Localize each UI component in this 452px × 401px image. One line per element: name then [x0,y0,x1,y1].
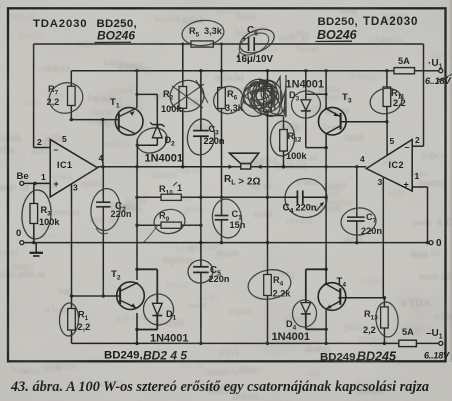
resistor R13 [381,307,389,328]
node 0-bus x221 [220,241,223,244]
wire D3 bottom leg [305,111,307,148]
wire D1 bottom stub [137,329,157,331]
terminal -U1 [439,341,443,345]
wire C7 top leg [356,167,358,217]
wire R1 top leg [71,296,73,309]
pen circle R6 [210,83,247,118]
wire D1 upper leg [156,269,158,303]
transistor T1 [115,108,143,136]
wire IC1 pin3 leg [71,184,73,296]
resistor R4 [264,275,272,296]
resistor R10 [161,194,181,200]
pen circle C7 [340,206,378,237]
node C2-T2 base [102,294,105,297]
node output bus C7 [355,165,358,168]
wire output riser x103 [102,120,104,167]
node rail R13 [383,342,386,345]
resistor R11 [383,87,391,107]
wire R1 bottom leg [71,330,73,343]
wire 0 bus [24,242,429,244]
wire T2 emitter drop [136,313,138,343]
pen circle R9 [152,207,186,235]
wire D1 lower leg [156,315,158,329]
node R8 on rail [266,69,269,72]
resistor R6 [218,88,226,109]
node T3 collector on rail [324,69,327,72]
wire T3 base line [340,121,387,123]
wire T3 emitter drop [325,134,327,167]
pen circle R11 [367,85,404,117]
resistor R8 (scribbled) [264,87,272,112]
node 0-bus C7 [355,241,358,244]
wire IC1 pin2 riser [33,44,35,148]
wire bottom rail [72,342,439,344]
node output bus T3-T4 [324,165,327,168]
wire x137 vertical bus-to-T2 [136,167,138,280]
capacitor C7 220n [347,216,365,218]
wire C3-C5 vertical mid [200,136,202,267]
wire top feedback line right of C6 [254,43,423,45]
wire IC2 pin1 stub [412,186,427,188]
pen circle R4 [246,266,293,302]
node x137 R10 row [135,196,138,199]
pen circle D1 [140,291,177,328]
pen scribble over R8 [234,74,286,124]
pen strike 18V [436,74,452,83]
wire D3 top stub [306,93,326,95]
wire T4 base line [338,297,384,299]
wire C2 top leg [102,167,104,202]
pen arrow C4 [316,203,323,211]
node 0-bus R3 [32,241,35,244]
capacitor C4 220n (plates) [296,191,298,205]
pen hook C2 [96,228,108,234]
node D2 stub tee [135,93,138,96]
pen circle C3 [185,117,217,156]
wire R13 top leg [383,298,385,307]
diode D2 1N4001 [152,125,162,137]
node R2 top [181,43,184,46]
node R6 top on feedback line [220,43,223,46]
wire R3 top leg [33,183,35,203]
wire D4 top stub [306,268,326,270]
capacitor C3 220n [193,130,209,132]
node R8-R12 bend [266,114,269,117]
node rail C5 [199,342,202,345]
wire D2 lower leg [156,138,158,146]
pen circle C6 [236,25,277,58]
wire R12 bottom leg [283,151,285,167]
wire D3 bottom stub [306,147,326,149]
wire R4 top leg [267,243,269,275]
wire C3-C5 vertical top [200,71,202,131]
node x137 R9 row [135,224,138,227]
node output bus R12 [282,165,285,168]
wire T3 collector riser [325,71,327,108]
node 0-bus x201 [199,241,202,244]
diode D4 1N4001 [301,303,311,314]
ground [35,243,37,252]
pen circle R13 [374,301,400,338]
pen tick R10 [173,182,177,186]
wire R3 bottom leg [33,224,35,243]
node output bus x103 [101,165,104,168]
fuse 5A bottom [399,340,417,346]
wire IC2 pin2 riser [423,44,425,146]
diode D3 1N4001 [301,100,311,110]
node T2 emitter D1 join [135,328,138,331]
resistor R7 [68,86,76,105]
wire R4 bottom leg [267,296,269,344]
pen tick R9 [143,225,158,243]
resistor R3 [30,204,38,224]
node D3 stub on T3 riser [325,93,328,96]
node base-output junction [101,118,104,121]
node R10 row end [324,196,327,199]
op-amp IC1 [50,140,97,198]
wire D3 rail leg [305,71,307,100]
node x137 D1 top [135,268,138,271]
resistor R5 [191,41,213,47]
resistor R12 [280,130,288,152]
wire R11 top leg [386,71,388,87]
pen circle C5 [187,258,215,284]
wire T1 emitter drop [136,139,138,167]
node R11-T3 base-pin5 [385,120,388,123]
resistor R9 [161,222,181,228]
pen strokes R2 [170,80,208,108]
transistor T4 [318,283,346,311]
pen circle R1 [59,303,79,337]
pen circle D4 [292,300,317,328]
pen circle C2 [89,187,122,232]
node pin3-R13-T4base [383,296,386,299]
wire D4 upper leg [305,269,307,302]
node 0-bus x267 [266,241,269,244]
wire D1 top stub [137,268,157,270]
wire R7 bottom leg [70,106,72,120]
wire R13 bottom leg [383,328,385,343]
node output bus R2 [181,165,184,168]
wire D4 lower leg [305,314,307,330]
wire top feedback line left of C6 [34,43,249,45]
terminal Be [20,181,24,185]
op-amp IC2 [366,140,412,192]
node T1 collector on rail [135,69,138,72]
wire R10 row [137,196,297,198]
pen circle R12 [269,120,295,157]
pen circle R5 [181,18,225,47]
terminal 0 left [20,241,24,245]
node rail T2 [135,342,138,345]
wire C7 bottom leg [356,221,358,243]
wire T1 base line [70,119,119,121]
node R10 row x221 [220,196,223,199]
page right edge shadow [450,0,452,362]
wire T4 emitter drop [325,310,327,344]
pen circle R7 [45,78,87,118]
resistor R2 [179,87,187,109]
wire R2 bottom leg [182,108,184,167]
wire output bus [98,166,367,168]
wire IC1 pin2 stub [34,147,51,149]
node D2-T1 emitter join [136,144,139,147]
wire R8 bottom leg [267,112,269,243]
pen circle R3 [20,189,52,240]
resistor R1 [68,309,76,331]
node Be-R3 [33,182,36,185]
wire D4 bottom stub [306,328,326,330]
wire R10 row after C4 [303,196,326,198]
wire IC2 pin3 leg [382,178,384,298]
wire D2 upper leg [156,94,158,124]
wire R6-C1 vertical top [221,44,223,88]
wire D2 bottom bend [137,144,157,146]
pen circle D2 [133,124,171,158]
diode D1 1N4001 [152,303,162,315]
pen circle R2 [167,77,207,114]
wire T3T4 vertical mid [325,167,327,284]
wire R12 bend horizontal [268,115,284,117]
node rail R4 [266,342,269,345]
wire R6-C1 vertical mid [221,109,223,216]
wire R9 row [137,224,201,226]
node R10 row x267 [266,196,269,199]
wire R8-R4 vertical [267,71,269,87]
node D3 on rail [304,69,307,72]
node D3 bottom on T3 emitter [324,146,327,149]
wire D2 top stub [137,93,157,95]
wire C2 bottom leg [102,207,104,296]
capacitor C2 220n [96,201,110,203]
pen circle C4 [285,179,327,218]
node R6 on rail [220,69,223,72]
node R10 row x201 [199,196,202,199]
node R7-T1 base [70,118,73,121]
transistor T3 [319,107,347,135]
speaker left arrow [229,165,234,169]
wire R7 top leg [70,71,72,86]
fuse 5A top [394,68,415,74]
node rail T4 [324,342,327,345]
wire R11 bottom leg [386,107,388,122]
wire R2 top leg [182,44,184,87]
node pin3-R1-T2base [70,294,73,297]
speaker RL [230,153,259,163]
terminal +U1 [439,69,443,73]
wire IC2 pin5 leg [386,122,388,155]
wire R12 top leg [283,116,285,130]
node R11 on rail [385,69,388,72]
node T4 collector tee [324,268,327,271]
node T4 emitter D4 join [324,328,327,331]
wire T2 base line [72,295,121,297]
capacitor C5 220n [193,266,209,268]
pen circle D3 [290,89,322,120]
capacitor C6 16u (plates) [248,37,250,51]
node output bus x137 [135,165,138,168]
node 0-bus IC2 pin1 [426,241,429,244]
wire C1 bottom leg [221,220,223,243]
node R9 row end [199,224,202,227]
wire IC2 pin1 drop [427,187,429,243]
pen circle C6 second loop [236,29,273,60]
wire C3-C5 vertical bottom [200,272,202,343]
speaker right arrow [257,165,262,169]
transistor T2 [117,282,145,310]
wire T1 collector riser [136,71,138,108]
wire Be input [24,182,50,184]
node C3 on rail [199,69,202,72]
wire IC2 pin2 stub [412,145,423,147]
pen circle C1 [210,197,244,240]
capacitor C1 15n [215,215,229,217]
wire +U1 rail [71,70,439,72]
terminal 0 right [429,241,433,245]
